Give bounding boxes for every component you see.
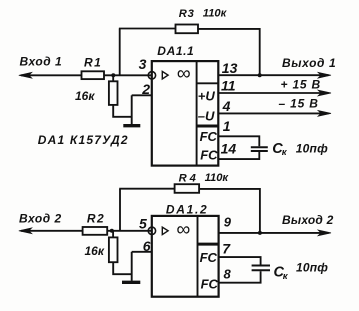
op-amp DA1.1 inner divider: [196, 61, 198, 166]
svg-text:DA1.1: DA1.1: [157, 44, 194, 58]
resistor R2: [83, 227, 108, 235]
svg-text:9: 9: [224, 215, 232, 230]
svg-text:16к: 16к: [85, 244, 105, 258]
svg-text:∞: ∞: [177, 63, 191, 85]
svg-text:8: 8: [224, 266, 232, 281]
ground 1: [123, 124, 140, 127]
wire capacitor 1 to pin 14: [218, 152, 259, 159]
svg-text:1: 1: [223, 118, 231, 134]
wire feedback 2 top: [119, 188, 174, 190]
svg-text:FC: FC: [200, 250, 218, 265]
op-amp DA1.2 inner divider: [197, 216, 199, 297]
wire feedback 1 left drop: [119, 29, 121, 76]
resistor 16к (input 2): [109, 237, 118, 262]
svg-text:10пф: 10пф: [296, 141, 328, 155]
svg-text:R3: R3: [179, 8, 195, 20]
svg-text:∞: ∞: [176, 218, 190, 240]
wire pin 2 down to ground 1: [131, 95, 133, 124]
junction node output2/feedback: [258, 231, 262, 235]
wire output 2 (pin 9) with arrow: [219, 230, 331, 236]
wire R2 to pin 5 circle: [107, 230, 152, 232]
svg-text:DA1.2: DA1.2: [166, 203, 209, 217]
wire +15V (pin 11) with arrow: [218, 90, 331, 96]
svg-text:3: 3: [139, 56, 147, 72]
wire pin 6: [132, 251, 152, 253]
wire pin 1 to capacitor 1: [218, 136, 259, 146]
svg-text:16к: 16к: [75, 89, 95, 103]
svg-text:14: 14: [221, 141, 237, 157]
DA1.2 thick cell line above FC: [198, 243, 219, 246]
svg-text:DA1 К157УД2: DA1 К157УД2: [38, 133, 129, 147]
capacitor Ск 1: [251, 147, 268, 151]
triangle symbol DA1.2: [162, 227, 168, 235]
svg-text:R4: R4: [179, 173, 199, 185]
wire pin 7 to capacitor 2: [219, 257, 261, 264]
svg-text:5: 5: [139, 216, 147, 232]
svg-text:Вход 1: Вход 1: [20, 55, 63, 69]
op-amp DA1.2 body: [152, 216, 219, 297]
svg-text:110к: 110к: [205, 172, 230, 184]
wire 16k bottom to ground 1: [113, 105, 132, 117]
svg-text:7: 7: [222, 241, 231, 257]
DA1.1 thick cell line above FC: [197, 125, 219, 128]
DA1.1 cell line below output: [197, 82, 219, 84]
svg-text:Вход 2: Вход 2: [19, 212, 62, 226]
wire junction to 16к top: [112, 75, 114, 81]
ground 2: [122, 281, 140, 284]
resistor R3: [176, 25, 199, 34]
wire input 2 with left arrow: [19, 228, 83, 234]
wire pin 2: [132, 94, 152, 96]
svg-text:– 15 В: – 15 В: [279, 97, 319, 111]
svg-text:110к: 110к: [203, 8, 228, 20]
svg-text:Выход 1: Выход 1: [282, 56, 336, 70]
svg-text:FC: FC: [201, 276, 219, 291]
svg-text:FC: FC: [200, 129, 218, 144]
inversion circle pin 5: [148, 227, 155, 234]
svg-text:+U: +U: [198, 89, 216, 104]
wire output 1 (pin 13) with arrow: [218, 72, 331, 78]
junction node R1/16k: [111, 73, 115, 77]
wire 16k2 bottom to ground 2: [113, 262, 132, 274]
resistor 16к (input 1): [109, 81, 118, 105]
svg-text:4: 4: [222, 98, 231, 114]
junction node R2/16k: [110, 229, 114, 233]
svg-text:13: 13: [222, 60, 238, 76]
wire feedback 1 top: [119, 28, 176, 30]
svg-text:FC: FC: [200, 147, 218, 162]
wire capacitor 2 to pin 8: [219, 271, 261, 283]
wire junction to 16к top (2): [112, 231, 114, 238]
resistor R1: [82, 71, 105, 79]
svg-text:R2: R2: [87, 212, 105, 226]
svg-text:+ 15 В: + 15 В: [281, 78, 322, 92]
junction node output1/feedback: [258, 73, 262, 77]
resistor R4: [175, 184, 200, 193]
svg-text:2: 2: [141, 81, 150, 97]
svg-text:R1: R1: [84, 55, 102, 69]
wire feedback 2 right + drop to output: [199, 189, 260, 233]
wire input 1 with left arrow: [19, 72, 82, 78]
inversion circle pin 3: [148, 72, 155, 79]
wire feedback 2 left drop: [119, 189, 121, 231]
svg-text:6: 6: [143, 238, 151, 254]
triangle symbol DA1.1: [162, 71, 168, 79]
capacitor Ск 2: [252, 266, 270, 271]
svg-text:10пф: 10пф: [296, 261, 328, 275]
op-amp DA1.1 body: [152, 61, 219, 166]
wire -15V (pin 4) with arrow: [218, 111, 331, 117]
svg-text:11: 11: [221, 78, 236, 94]
wire feedback 1 right + drop to output: [198, 29, 260, 75]
svg-text:Выход 2: Выход 2: [282, 213, 334, 227]
wire pin 6 down to ground 2: [131, 252, 133, 281]
wire R1 to pin 3 circle: [104, 74, 153, 76]
svg-text:–U: –U: [198, 109, 215, 124]
